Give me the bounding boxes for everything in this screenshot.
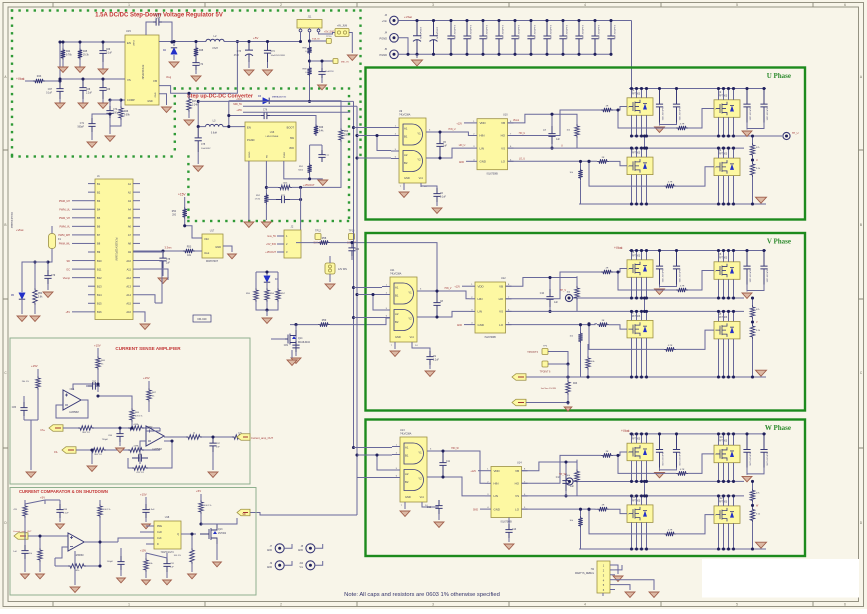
svg-text:LIN_U: LIN_U	[459, 145, 466, 147]
svg-text:17.8k: 17.8k	[255, 199, 261, 201]
svg-text:ISL6700IB: ISL6700IB	[487, 173, 499, 176]
svg-text:0.1uF: 0.1uF	[440, 197, 446, 199]
svg-text:C70: C70	[113, 109, 118, 111]
svg-text:U14: U14	[517, 462, 522, 465]
capacitor C86	[132, 454, 148, 461]
svg-text:CS+: CS+	[40, 429, 45, 432]
U rail link	[644, 136, 646, 148]
svg-text:+5V: +5V	[65, 311, 70, 314]
gate driver IC U12	[475, 282, 506, 333]
svg-text:LM358M: LM358M	[152, 448, 161, 451]
capacitor C76	[229, 115, 261, 117]
capacitor C82	[88, 382, 100, 389]
svg-text:SGND: SGND	[249, 151, 251, 158]
svg-text:1uF: 1uF	[166, 263, 171, 265]
snubber R48 C72	[195, 42, 197, 47]
svg-text:GND: GND	[480, 160, 486, 164]
svg-text:2.2uF/50V 1206: 2.2uF/50V 1206	[613, 25, 615, 40]
svg-text:U17: U17	[210, 230, 215, 233]
svg-text:A8: A8	[128, 242, 132, 246]
pin A7	[133, 234, 140, 236]
svg-text:CS-: CS-	[54, 451, 58, 454]
VDD wire W	[478, 470, 485, 472]
pin A2	[133, 191, 140, 193]
capacitor V high-side decoupling	[656, 251, 663, 285]
pin A13	[133, 285, 140, 287]
ground C89	[21, 574, 30, 579]
transistor Q7 IRF7403	[627, 320, 653, 338]
transistor Q14 IRLML6402	[271, 338, 285, 340]
electrolytic capacitor C2	[430, 21, 438, 36]
wire Y1 to HIN W	[435, 451, 485, 483]
svg-text:3.24k: 3.24k	[192, 105, 198, 107]
svg-text:TP12: TP12	[315, 230, 321, 233]
svg-text:2R: 2R	[606, 106, 609, 108]
svg-text:A7: A7	[128, 233, 132, 237]
svg-text:C81: C81	[284, 345, 289, 347]
pin A1	[133, 183, 140, 185]
svg-text:0.1uF: 0.1uF	[106, 53, 112, 55]
H2 ground wires	[615, 565, 618, 574]
svg-text:U Phase: U Phase	[767, 72, 791, 80]
svg-text:GND: GND	[267, 550, 272, 552]
svg-text:2R: 2R	[602, 320, 605, 322]
svg-text:HIN: HIN	[494, 482, 499, 486]
ground R77	[142, 580, 151, 585]
wire Vout to A9 with resistor R53	[195, 250, 202, 252]
pin A11	[133, 268, 140, 270]
GND wire W	[480, 508, 485, 510]
svg-text:TP_U: TP_U	[792, 132, 799, 135]
diode D3 (blue)	[229, 100, 263, 102]
Q7 drain pins	[631, 311, 633, 320]
pin B15	[88, 302, 95, 304]
svg-text:B7: B7	[97, 233, 101, 237]
Q3 source pins	[631, 175, 633, 204]
svg-text:+15V: +15V	[236, 109, 242, 112]
current comparator box	[10, 488, 256, 596]
V divider top wire	[752, 298, 754, 305]
pin B4	[88, 208, 95, 210]
pin B10	[88, 260, 95, 262]
svg-text:PSRG: PSRG	[284, 152, 286, 158]
U inputs from bus	[352, 126, 355, 129]
svg-text:B4: B4	[97, 207, 101, 211]
svg-text:470 1%: 470 1%	[135, 416, 142, 418]
svg-text:+15VOUT: +15VOUT	[303, 183, 315, 187]
wire tp5	[548, 352, 568, 365]
test point TPOINT6	[542, 361, 548, 367]
capacitor C6 Vcc AND	[433, 188, 440, 202]
U18 pin wires	[146, 525, 154, 527]
wire to ground mid	[91, 450, 93, 464]
svg-text:R46: R46	[124, 111, 129, 113]
terminal J8	[306, 544, 315, 553]
resistor R52 17.8k	[264, 193, 268, 205]
svg-text:100pF: 100pF	[107, 561, 114, 563]
svg-text:A2: A2	[405, 472, 409, 476]
VS wire V	[506, 310, 628, 312]
svg-text:A2: A2	[128, 190, 132, 194]
resistor R69	[186, 435, 202, 439]
resistor V gate 1	[601, 270, 613, 274]
GND wire V	[464, 324, 469, 326]
capacitor C91	[163, 558, 170, 572]
V inputs	[352, 286, 355, 289]
VDD wire U10	[464, 122, 471, 124]
resistor R73	[38, 548, 42, 562]
svg-text:IRF7403: IRF7403	[631, 315, 641, 318]
svg-text:C76: C76	[263, 110, 268, 112]
svg-text:22uF/16V 1206: 22uF/16V 1206	[749, 107, 751, 122]
resistor R54	[34, 262, 36, 288]
inductor L2 47uH	[206, 39, 224, 41]
transistor Q1 IRF7403	[627, 98, 653, 116]
svg-text:B12: B12	[97, 276, 102, 280]
svg-text:R59: R59	[322, 319, 327, 322]
W inputs	[352, 446, 355, 449]
svg-text:+12V: +12V	[456, 123, 462, 126]
svg-text:2.2uF/50V 1206: 2.2uF/50V 1206	[533, 25, 535, 40]
capacitor C93	[321, 61, 323, 68]
svg-text:2.2uF/50V 1206: 2.2uF/50V 1206	[453, 25, 455, 40]
svg-text:2.2uF/50V 1206: 2.2uF/50V 1206	[501, 25, 503, 40]
svg-text:3.3ms: 3.3ms	[164, 246, 172, 250]
resistor W gate 2	[676, 471, 688, 475]
op-amp OP1	[63, 390, 81, 410]
svg-text:Q13: Q13	[218, 529, 223, 531]
resistor U gate 1	[601, 108, 613, 112]
Q2 source pins	[718, 117, 720, 136]
wire Y1 to HIN	[434, 132, 471, 136]
capacitor V decoupling B	[760, 251, 767, 285]
bootstrap top to divider V	[550, 278, 577, 288]
resistor V ho pulldown	[575, 286, 579, 300]
pin A9	[133, 251, 140, 253]
W phase box	[366, 420, 806, 557]
svg-text:A2: A2	[395, 312, 399, 316]
svg-text:U18: U18	[165, 516, 170, 519]
svg-text:R50: R50	[344, 131, 349, 133]
transistor Q10 IRF7403	[714, 445, 740, 463]
resistor W gate 4	[664, 532, 676, 536]
terminal J3 +Vin	[390, 16, 399, 25]
pin A3	[133, 200, 140, 202]
capacitor C83 input	[37, 412, 39, 420]
capacitor C64 120nF	[153, 18, 162, 25]
svg-text:LIN: LIN	[478, 310, 483, 314]
svg-text:R53: R53	[187, 246, 192, 249]
svg-text:1uF: 1uF	[554, 302, 559, 304]
ground W caps B	[742, 476, 752, 481]
svg-text:9.09k: 9.09k	[124, 115, 130, 117]
svg-text:Q14: Q14	[298, 338, 303, 340]
resistor R47	[188, 93, 190, 97]
U phase node rail	[632, 135, 745, 137]
resistor R74	[68, 564, 86, 568]
resistor R59	[318, 322, 330, 326]
ground return bus	[398, 38, 408, 55]
output oval Current_amp_OUT	[237, 434, 250, 441]
svg-text:B2: B2	[395, 320, 399, 324]
pin B7	[88, 234, 95, 236]
svg-text:TPOINT 6: TPOINT 6	[540, 371, 551, 374]
capacitor C89	[21, 545, 28, 559]
svg-text:Y2: Y2	[408, 317, 412, 321]
resistor R76	[190, 548, 194, 564]
svg-text:1uF: 1uF	[170, 567, 174, 569]
capacitor C4 2.2uF/50V	[463, 21, 470, 55]
svg-text:10uF/63V: 10uF/63V	[201, 148, 211, 150]
svg-text:C75: C75	[201, 144, 206, 146]
svg-text:TP13: TP13	[349, 230, 355, 233]
svg-text:A3: A3	[128, 199, 132, 203]
svg-text:GND: GND	[457, 325, 462, 327]
svg-text:R23: R23	[573, 383, 578, 385]
capacitor C69	[99, 79, 106, 99]
svg-text:+5V: +5V	[253, 36, 258, 40]
svg-text:EN: EN	[247, 126, 251, 130]
svg-text:CLK: CLK	[157, 537, 162, 540]
wire Q14 to ground	[291, 350, 293, 358]
W source bus	[579, 548, 766, 550]
Q8 drain pins	[718, 311, 720, 321]
supply drop to U phase	[631, 21, 633, 89]
svg-text:B1: B1	[395, 294, 399, 298]
svg-text:U12: U12	[501, 277, 506, 280]
svg-text:+Vin: +Vin	[382, 19, 388, 23]
svg-text:HO: HO	[515, 482, 520, 486]
GND wire U10	[466, 160, 471, 162]
svg-text:1uF: 1uF	[570, 486, 575, 488]
ground C91	[163, 580, 172, 585]
svg-text:ISL6700IB: ISL6700IB	[485, 336, 497, 339]
svg-text:2N7002: 2N7002	[218, 533, 227, 535]
svg-text:GND: GND	[478, 323, 484, 327]
IC U17 MCP9700 temp sensor	[202, 234, 223, 258]
wire Y2 to LIN	[434, 148, 471, 158]
opamp supply from R60	[73, 384, 98, 390]
svg-text:C13: C13	[512, 529, 517, 531]
capacitor C77	[318, 150, 325, 162]
svg-text:PCN10EV-32P2.5MM: PCN10EV-32P2.5MM	[115, 237, 118, 260]
svg-text:PWM_UL: PWM_UL	[59, 208, 70, 211]
pin A16	[133, 311, 140, 313]
svg-text:+Vbat: +Vbat	[16, 228, 24, 232]
pin B2	[88, 191, 95, 193]
svg-text:CURRENT COMPARATOR & ON SHUTDO: CURRENT COMPARATOR & ON SHUTDOWN	[19, 489, 108, 494]
transistor Q11 IRF7403	[627, 505, 653, 523]
svg-text:LM358M: LM358M	[69, 411, 78, 414]
capacitor V decoupling B	[743, 251, 750, 285]
W phase node rail	[632, 480, 745, 482]
jumper J6	[325, 263, 335, 274]
svg-text:LIN: LIN	[494, 494, 499, 498]
svg-text:R54: R54	[38, 293, 43, 295]
svg-text:Step up-DC-DC Converter: Step up-DC-DC Converter	[187, 94, 254, 100]
ground A16	[140, 312, 145, 322]
capacitor C9	[426, 351, 433, 365]
svg-text:PGND: PGND	[380, 36, 388, 40]
Q9 drain pins	[631, 434, 633, 443]
svg-text:A6: A6	[128, 225, 132, 229]
capacitor C8 2.2uF/50V	[527, 21, 534, 55]
AND gate IC U11	[390, 277, 417, 342]
capacitor C83	[20, 402, 27, 416]
feedback loop OP1	[56, 400, 88, 418]
svg-text:VDD: VDD	[480, 121, 486, 125]
V phase TP circle	[565, 294, 572, 301]
svg-text:B9: B9	[97, 250, 101, 254]
Q10 source pins	[718, 463, 720, 482]
ground C71	[87, 142, 97, 147]
Q8 source pins	[718, 339, 720, 377]
ground U9	[403, 183, 405, 190]
IC U18 shutdown latch	[154, 521, 181, 549]
svg-text:HO_U: HO_U	[519, 133, 526, 135]
resistor R65	[128, 448, 144, 452]
resistor V gate 4	[664, 347, 676, 351]
bootstrap capacitor C7	[548, 126, 555, 144]
svg-text:A1: A1	[128, 182, 132, 186]
svg-text:B2: B2	[405, 480, 409, 484]
pin A15	[133, 302, 140, 304]
svg-text:LO_U: LO_U	[519, 159, 525, 161]
pin A5	[133, 217, 140, 219]
ground C72	[191, 76, 201, 81]
ground W caps A	[655, 472, 665, 477]
svg-text:CLR: CLR	[157, 531, 162, 534]
Q12 source pins	[718, 523, 720, 549]
input oval comparator	[14, 533, 28, 540]
ground R73	[36, 574, 45, 579]
svg-text:B2: B2	[97, 190, 101, 194]
svg-text:A9: A9	[128, 250, 132, 254]
resistor W ho pulldown	[575, 469, 579, 483]
svg-text:LM393M: LM393M	[75, 555, 84, 557]
svg-text:TP10: TP10	[326, 36, 332, 38]
capacitor W high-side decoupling	[673, 434, 680, 468]
ground C92	[117, 578, 126, 583]
resistor R75	[199, 500, 203, 514]
svg-text:900 1%: 900 1%	[82, 432, 89, 434]
pin stubs U15	[60, 41, 125, 43]
svg-text:B1: B1	[97, 182, 101, 186]
svg-text:+12V: +12V	[454, 286, 460, 289]
ground U bus	[756, 197, 767, 203]
pin B11	[88, 268, 95, 270]
pin A6	[133, 225, 140, 227]
svg-text:3.3uF: 3.3uF	[149, 509, 155, 511]
svg-text:OP2: OP2	[148, 426, 153, 429]
ground U11	[394, 342, 396, 349]
svg-text:4: 4	[584, 603, 586, 607]
V phase node rail	[632, 297, 745, 299]
svg-text:Y1: Y1	[417, 132, 421, 136]
capacitor U decoupling B	[743, 89, 750, 123]
svg-text:120nF: 120nF	[154, 13, 162, 17]
svg-text:GND: GND	[459, 162, 464, 164]
resistor R67	[147, 388, 151, 402]
svg-text:1uF: 1uF	[13, 551, 17, 553]
svg-text:LIN: LIN	[480, 146, 485, 150]
svg-text:22uF/16V 1206: 22uF/16V 1206	[678, 107, 680, 122]
resistor R66	[130, 408, 134, 422]
svg-text:GND: GND	[494, 507, 500, 511]
svg-text:0.1uF: 0.1uF	[63, 513, 69, 515]
resistor U gate 4	[664, 184, 676, 188]
connector ISNS+	[512, 374, 526, 381]
svg-text:C80: C80	[355, 249, 360, 251]
ground R52	[261, 222, 271, 227]
output capacitor C74	[264, 42, 271, 63]
VS wire to low rail	[508, 147, 628, 149]
resistor V gate 3	[597, 323, 609, 327]
capacitor U high-side decoupling	[656, 89, 663, 123]
U source bus	[579, 203, 766, 205]
input oval CS-	[62, 447, 76, 454]
svg-text:3: 3	[432, 3, 434, 7]
svg-text:22uF/16V 1206: 22uF/16V 1206	[766, 269, 768, 284]
svg-text:MARTYS_DEBUG: MARTYS_DEBUG	[575, 572, 594, 575]
svg-text:IRF7403: IRF7403	[718, 440, 728, 443]
capacitor C70	[106, 106, 113, 118]
VS wire W	[522, 495, 628, 497]
LED D4 blue	[256, 271, 278, 273]
MOSFET Q13 small	[200, 524, 217, 544]
svg-text:+15V: +15V	[140, 493, 147, 497]
ground C12	[434, 522, 444, 527]
pin A10	[133, 260, 140, 262]
wire A10 down	[140, 261, 162, 304]
svg-text:U: U	[756, 159, 758, 162]
svg-text:VS: VS	[499, 310, 503, 314]
transistor Q2 IRF7403	[714, 100, 740, 118]
resistor R72	[98, 504, 102, 518]
resistor W div hi	[750, 488, 754, 502]
svg-text:HIN_W: HIN_W	[451, 448, 459, 450]
feedback resistor comparator	[54, 558, 56, 566]
svg-text:PWM_VL: PWM_VL	[59, 226, 70, 229]
SD feed wire	[250, 513, 357, 516]
Q7 source pins	[631, 338, 633, 377]
svg-text:47uH: 47uH	[212, 47, 218, 50]
svg-text:HO: HO	[501, 134, 506, 138]
test point TP11 MID_5V	[310, 60, 334, 62]
svg-text:+5V: +5V	[196, 489, 201, 493]
capacitor C11	[439, 451, 446, 477]
svg-text:22uF/16V 1206: 22uF/16V 1206	[661, 452, 663, 467]
fuse F1	[49, 234, 56, 249]
svg-text:VB: VB	[515, 469, 519, 473]
svg-text:B14: B14	[97, 293, 102, 297]
svg-text:2.2uF: 2.2uF	[433, 360, 439, 362]
capacitor C3 2.2uF/50V	[447, 21, 454, 55]
capacitor C7 2.2uF/50V	[511, 21, 518, 55]
svg-text:A12: A12	[126, 276, 131, 280]
svg-text:B1: B1	[405, 454, 409, 458]
svg-text:C82: C82	[92, 382, 97, 384]
U low-side rail	[627, 147, 744, 149]
ground V caps A	[655, 289, 665, 294]
svg-text:1uF: 1uF	[556, 139, 561, 141]
pin A12	[133, 277, 140, 279]
svg-text:1nF: 1nF	[216, 447, 220, 449]
svg-text:4.99k: 4.99k	[133, 424, 139, 426]
pin B6	[88, 225, 95, 227]
ground R76	[188, 574, 197, 579]
resistor R23 shunt	[566, 380, 570, 395]
